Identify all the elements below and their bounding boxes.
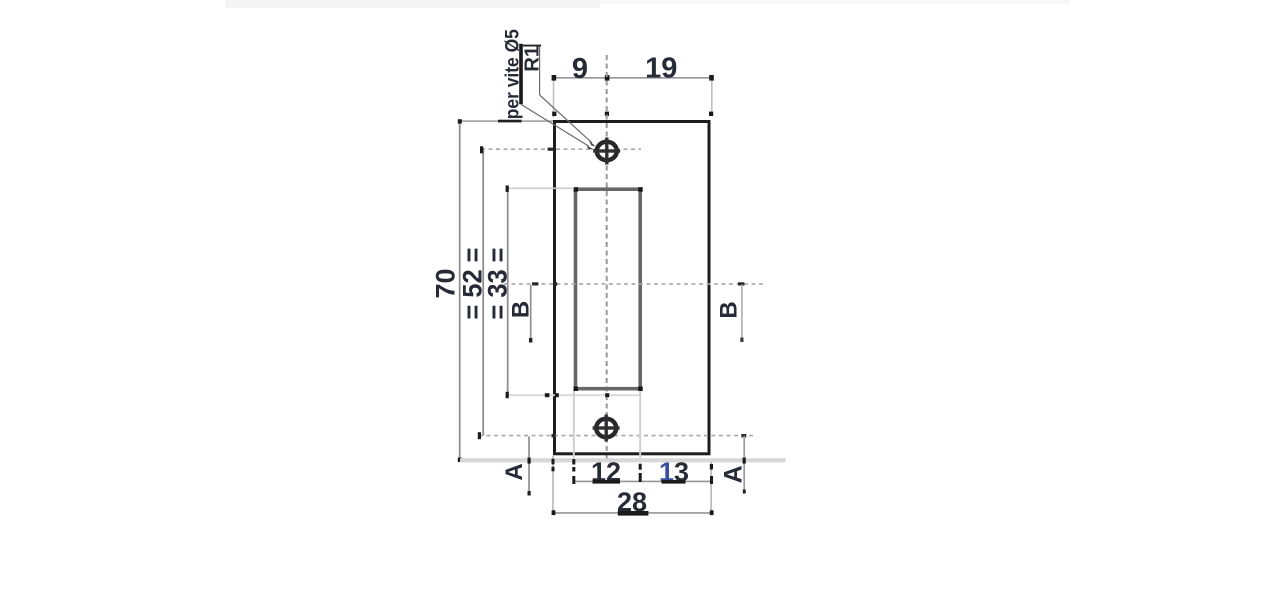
- 33 dim bottom extension: [506, 394, 641, 396]
- thick gray ground band: [460, 458, 786, 462]
- svg-text:R1: R1: [522, 46, 544, 72]
- extension line top of 70 dim: [460, 120, 554, 122]
- svg-text:9: 9: [572, 53, 588, 85]
- vertical extension above plate left for dim 9: [553, 78, 555, 118]
- left plate extension below to 28 dim: [552, 456, 554, 513]
- svg-text:70: 70: [431, 268, 461, 298]
- overbar of R1: [523, 45, 541, 47]
- dark segment of extension under text column: [498, 120, 522, 123]
- bottom hole: [593, 415, 620, 442]
- dimension line 9/19: [554, 77, 712, 79]
- underline of 13: [662, 480, 686, 484]
- thick underline of 28: [618, 511, 649, 516]
- plate outline: [555, 122, 710, 454]
- tick middle: [605, 75, 610, 81]
- vertical centerline of plate: [606, 55, 608, 462]
- tick dashes at 12 left: [572, 459, 575, 465]
- underline of 12: [593, 480, 621, 484]
- 70 dimension line: [459, 120, 461, 460]
- dark squares at extension bottoms: [552, 112, 556, 116]
- dark dashes on A-A line: [552, 434, 556, 437]
- dark dashes on B-B line: [532, 282, 538, 285]
- left B section arrow line: [530, 285, 532, 341]
- 33 dimension line: [507, 188, 509, 395]
- tick dashes at 13 right: [710, 464, 713, 469]
- slot bottom-right extension to bottom dims: [639, 391, 641, 458]
- top hole centerline: [481, 148, 641, 150]
- dark dashes on left plate extension: [552, 459, 555, 465]
- slot bottom-left extension to bottom dims: [573, 391, 575, 458]
- svg-text:B: B: [508, 301, 535, 318]
- 33 dim top extension: [508, 187, 574, 189]
- 52 dimension line: [482, 148, 484, 436]
- right B section arrow line: [741, 285, 743, 341]
- thick underline bar of note: [519, 44, 523, 104]
- faint top band: [225, 0, 600, 8]
- dimension line 28: [553, 512, 711, 514]
- leader line from note: [521, 104, 589, 146]
- svg-text:A: A: [501, 463, 528, 480]
- right A section arrow line: [743, 436, 745, 493]
- tick left end: [552, 75, 557, 81]
- tick dashes at 12/13 divider: [639, 464, 642, 470]
- arrowhead of R1 leader: [589, 141, 596, 146]
- A-A section line: [479, 435, 754, 437]
- right plate extension below to 28 dim: [710, 462, 712, 513]
- svg-text:B: B: [716, 301, 743, 318]
- dark dash near plate edge: [548, 148, 554, 151]
- svg-text:A: A: [720, 465, 748, 483]
- slot corner darks: [574, 187, 579, 192]
- arrowhead of note leader: [587, 145, 595, 150]
- dimension line 12/13: [574, 480, 712, 482]
- dark dashes on bottom extension: [545, 393, 550, 397]
- dark dashes on right plate extension: [710, 464, 713, 470]
- leader line from R1: [540, 95, 592, 143]
- vertical extension above plate right for dim 19: [711, 78, 713, 114]
- slot outline: [576, 189, 641, 389]
- left A section arrow line: [528, 436, 530, 495]
- top hole: [593, 138, 620, 165]
- tick right end: [709, 75, 714, 81]
- B-B section line: [504, 283, 766, 285]
- underline of R1: [539, 46, 541, 95]
- svg-text:19: 19: [645, 52, 677, 84]
